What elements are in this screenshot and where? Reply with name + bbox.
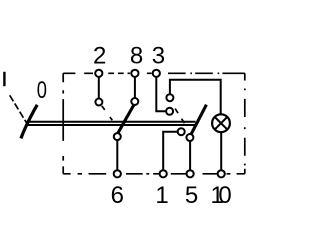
wire terminal 2 to contact: [98, 75, 100, 99]
wire contact to lamp (up-over-down): [170, 80, 221, 115]
svg-text:6: 6: [111, 182, 124, 209]
svg-text:8: 8: [130, 43, 143, 70]
pole 2 alternate position (dashed): [175, 109, 184, 124]
enclosure dash-dot box: bottom edge: [63, 173, 245, 175]
terminal 8: [131, 70, 138, 77]
contact from terminal 1: [178, 128, 185, 135]
lamp L: [212, 114, 230, 132]
rocker actuator dashed arm (position I): [10, 95, 30, 128]
terminal 5: [187, 170, 194, 177]
pole 2 moving arm (open): [191, 105, 207, 135]
svg-text:5: 5: [185, 182, 198, 209]
svg-text:1: 1: [155, 182, 168, 209]
enclosure dash-dot box: top edge: [63, 72, 245, 74]
pole 1 pivot contact: [114, 133, 121, 140]
svg-text:0: 0: [218, 182, 231, 209]
wire terminal 1 to contact (L-shape): [163, 132, 178, 172]
pole 1 moving arm (closed 8-6): [118, 104, 135, 133]
terminal 1: [160, 170, 167, 177]
svg-text:0: 0: [37, 77, 47, 104]
enclosure dash-dot box: left edge: [62, 73, 64, 174]
pole 2 pivot contact: [186, 134, 193, 141]
wire terminal 3 to contact (L-shape): [156, 75, 166, 111]
terminal 6: [114, 170, 121, 177]
contact from terminal 3: [166, 108, 173, 115]
wire terminal 5 to pivot: [189, 141, 191, 172]
rocker actuator solid arm (position 0): [21, 105, 37, 139]
mechanical link bar lower line: [27, 124, 196, 126]
enclosure dash-dot box: right edge: [244, 73, 246, 174]
contact from terminal 2: [95, 99, 102, 106]
wire terminal 6 to pivot: [116, 140, 118, 172]
svg-text:3: 3: [152, 43, 165, 70]
pole 1 alternate position (dashed): [102, 106, 113, 120]
mechanical link bar upper line: [27, 121, 196, 123]
wire terminal 10 to lamp: [220, 132, 222, 172]
position label I: [3, 72, 5, 86]
svg-text:2: 2: [93, 43, 106, 70]
wire terminal 8 to contact: [134, 75, 136, 98]
terminal 2: [95, 70, 102, 77]
terminal 10: [218, 170, 225, 177]
terminal 3: [153, 70, 160, 77]
contact from terminal 8: [131, 98, 138, 105]
contact to lamp feed: [166, 94, 173, 101]
